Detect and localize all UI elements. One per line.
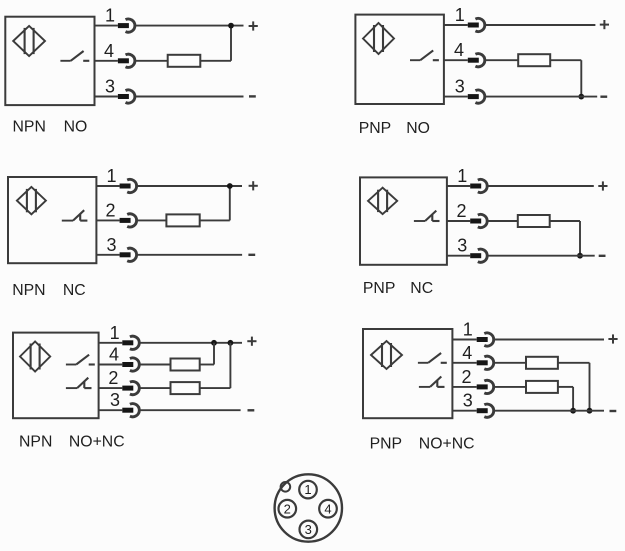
svg-text:3: 3 [305, 522, 312, 537]
svg-text:1: 1 [455, 5, 465, 25]
svg-text:4: 4 [462, 343, 472, 363]
svg-text:2: 2 [461, 367, 471, 387]
svg-text:1: 1 [463, 320, 473, 340]
svg-text:NPN: NPN [19, 434, 52, 451]
svg-text:1: 1 [110, 323, 120, 343]
svg-text:PNP: PNP [370, 436, 402, 453]
svg-text:PNP: PNP [359, 120, 391, 137]
svg-text:1: 1 [457, 166, 467, 186]
svg-text:NO+NC: NO+NC [419, 436, 475, 453]
svg-text:3: 3 [455, 77, 465, 97]
svg-text:4: 4 [104, 41, 114, 61]
svg-text:NO: NO [64, 119, 88, 136]
svg-text:NPN: NPN [12, 282, 45, 299]
svg-text:4: 4 [454, 40, 464, 60]
svg-text:3: 3 [106, 235, 116, 255]
svg-text:NO+NC: NO+NC [69, 434, 125, 451]
svg-text:3: 3 [110, 390, 120, 410]
svg-text:3: 3 [463, 391, 473, 411]
svg-text:3: 3 [457, 236, 467, 256]
svg-text:3: 3 [105, 77, 115, 97]
svg-text:2: 2 [284, 501, 291, 516]
svg-text:1: 1 [106, 166, 116, 186]
svg-text:4: 4 [109, 345, 119, 365]
svg-text:PNP: PNP [363, 280, 395, 297]
svg-text:2: 2 [456, 201, 466, 221]
svg-text:NC: NC [410, 280, 433, 297]
svg-text:NPN: NPN [13, 119, 46, 136]
svg-text:4: 4 [324, 501, 331, 516]
svg-text:1: 1 [105, 6, 115, 26]
svg-text:NC: NC [63, 282, 86, 299]
svg-text:1: 1 [304, 482, 311, 497]
svg-text:NO: NO [406, 120, 430, 137]
svg-text:2: 2 [108, 368, 118, 388]
svg-text:2: 2 [105, 200, 115, 220]
